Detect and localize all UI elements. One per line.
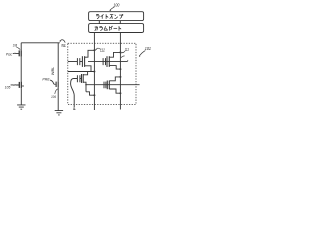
column gate label (katakana karamu-geeto)	[95, 26, 122, 31]
cross-couple wire to C4 exiting right edge	[86, 84, 140, 86]
leader from 100 to write-amp box	[110, 7, 115, 11]
leader 113	[121, 51, 125, 53]
node dot BL-A staircase	[93, 94, 95, 96]
svg-text:108: 108	[13, 43, 18, 47]
node dot BL-B source T2	[119, 68, 121, 70]
node dot BL-A drain T1	[93, 49, 95, 51]
svg-text:PGL: PGL	[6, 51, 12, 56]
svg-text:PRE: PRE	[42, 78, 50, 82]
speck near Q2	[22, 85, 24, 87]
wire connector between boxes (left)	[98, 21, 100, 24]
bit line BL-A	[93, 33, 95, 111]
ground G1	[17, 105, 25, 109]
label 112	[100, 48, 105, 53]
ferro capacitor C4	[104, 82, 106, 89]
leader RBL arrow to read bit line end	[60, 40, 65, 43]
transistor T4 gate bar	[106, 81, 108, 90]
ferro capacitor C3 input curve from word line	[71, 79, 78, 108]
transistor T3 drain step to word wire	[83, 72, 87, 75]
label RBL	[61, 43, 66, 48]
ferro capacitor C1 input wire	[68, 61, 78, 63]
word wire from left edge to BL-A	[68, 71, 95, 73]
transistor Q1 gate bar	[18, 50, 20, 56]
svg-text:105: 105	[5, 85, 11, 89]
svg-text:WBL: WBL	[51, 67, 55, 76]
node dot BL-A word wire	[93, 71, 95, 73]
transistor T1 channel	[84, 56, 86, 67]
ground G2	[55, 111, 63, 115]
staircase to BL-A	[86, 92, 94, 95]
label 105	[5, 85, 11, 89]
transistor Q2 channel	[20, 82, 22, 89]
bit line BL-B	[119, 33, 121, 110]
node dot BL-B drain T4	[119, 76, 121, 78]
transistor T2 drain step to BL-B	[109, 52, 120, 57]
label 100	[113, 2, 119, 7]
ferro capacitor C3	[77, 75, 80, 82]
node dot T3 source on cross wire	[85, 84, 87, 86]
label WBL (rotated)	[51, 67, 55, 76]
label 104	[51, 94, 56, 99]
wire Q2 source to ground	[20, 88, 22, 105]
node dot BL-B source T4	[119, 92, 121, 94]
ferro capacitor C1	[77, 58, 79, 65]
transistor T2 source step to BL-B	[109, 66, 120, 70]
transistor T1 drain step to BL-A	[85, 50, 95, 57]
transistor Q2 gate bar	[18, 82, 20, 88]
transistor Q1 channel	[20, 50, 22, 56]
label 113	[125, 47, 129, 52]
leader 112 squiggle	[96, 48, 101, 50]
stub hook at end	[126, 60, 129, 62]
wire C1 to T1 gate	[80, 61, 83, 63]
memory cell dashed box	[68, 43, 136, 104]
leader 108	[16, 47, 20, 50]
svg-text:112: 112	[100, 48, 105, 53]
leader 104 arc	[55, 89, 58, 94]
write amplifier box U1	[89, 12, 144, 21]
transistor Q1 gate lead with squiggle	[13, 52, 19, 54]
label 101	[145, 46, 152, 51]
svg-text:RBL: RBL	[61, 43, 66, 48]
wire Q3 source to ground	[57, 87, 59, 110]
svg-text:100: 100	[113, 2, 119, 7]
transistor T2 gate bar	[106, 56, 108, 67]
transistor T4 drain step to BL-B	[109, 77, 120, 81]
transistor T4 source step to BL-B	[109, 89, 120, 93]
node T-junction at read line	[57, 43, 59, 82]
transistor Q3 gate bar	[55, 82, 57, 87]
transistor T2 channel	[108, 56, 110, 67]
transistor T3 gate bar	[81, 74, 83, 83]
leader 101 to cell edge	[139, 51, 145, 57]
label PRE	[42, 78, 50, 82]
ferro capacitor C2	[103, 58, 105, 65]
svg-text:113: 113	[125, 47, 129, 52]
label PGL	[6, 51, 12, 56]
transistor T3 channel	[82, 74, 84, 83]
transistor T4 channel	[108, 81, 110, 90]
cross-couple wire to C2 and BL-B stub	[88, 61, 127, 63]
arrow blob below cell	[73, 107, 75, 109]
squiggle above BL-B	[121, 56, 125, 58]
wire C3 to T3 gate	[80, 78, 82, 80]
label 108	[13, 43, 18, 47]
svg-text:104: 104	[51, 94, 56, 99]
read bit line wire (left horizontal)	[21, 42, 60, 44]
transistor Q3 channel	[57, 81, 59, 87]
column gate box U2	[89, 24, 144, 33]
transistor Q1 drain wire	[20, 43, 22, 50]
wire connector between boxes (right)	[119, 21, 121, 24]
svg-text:101: 101	[145, 46, 152, 51]
transistor T1 source step	[85, 66, 91, 72]
transistor Q3 gate lead squiggle from PRE	[50, 80, 55, 84]
wire Q1 source to Q2 drain	[20, 57, 22, 82]
node dot BL-B drain T2	[119, 51, 121, 53]
transistor T1 gate bar	[81, 56, 83, 67]
transistor Q2 gate lead with squiggle	[11, 84, 20, 86]
write amplifier label (katakana raito-anpu)	[96, 14, 123, 19]
transistor T3 source step	[83, 82, 86, 92]
